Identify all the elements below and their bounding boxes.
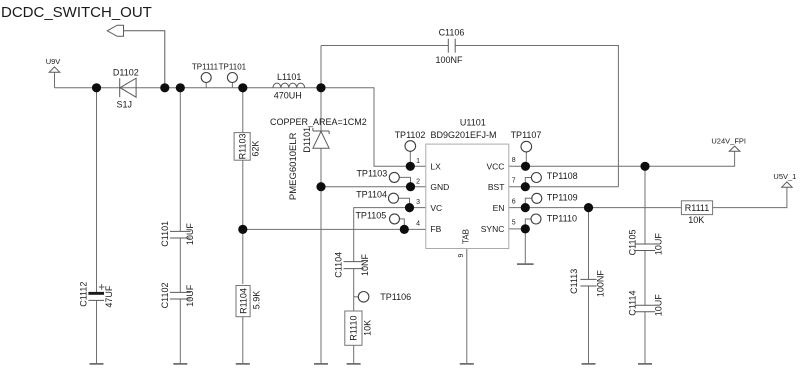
svg-text:C1106: C1106 (439, 28, 465, 38)
svg-text:9: 9 (458, 253, 465, 257)
svg-text:R1103: R1103 (238, 133, 248, 159)
svg-text:D1102: D1102 (113, 67, 139, 77)
svg-text:TP1111: TP1111 (192, 63, 219, 72)
svg-text:C1112: C1112 (78, 282, 88, 307)
svg-text:100NF: 100NF (596, 270, 606, 298)
svg-text:10UF: 10UF (185, 284, 195, 307)
svg-text:U5V_1: U5V_1 (773, 172, 796, 181)
svg-text:LX: LX (430, 161, 441, 171)
svg-text:EN: EN (493, 203, 505, 213)
svg-text:COPPER_AREA=1CM2: COPPER_AREA=1CM2 (270, 117, 367, 127)
svg-text:TP1102: TP1102 (395, 130, 426, 140)
svg-text:TP1108: TP1108 (547, 171, 578, 181)
svg-text:C1101: C1101 (160, 221, 170, 247)
svg-text:D1101: D1101 (302, 127, 312, 153)
svg-text:5: 5 (512, 220, 516, 227)
svg-text:10UF: 10UF (654, 233, 664, 256)
svg-text:R1110: R1110 (349, 316, 359, 341)
svg-text:TP1106: TP1106 (380, 292, 411, 302)
svg-text:7: 7 (512, 178, 516, 185)
svg-text:470UH: 470UH (274, 90, 302, 100)
svg-text:BST: BST (488, 182, 505, 192)
svg-text:C1113: C1113 (569, 269, 579, 294)
svg-text:4: 4 (416, 220, 420, 227)
svg-text:L1101: L1101 (277, 72, 301, 82)
svg-text:3: 3 (416, 199, 420, 206)
svg-text:10K: 10K (362, 320, 372, 336)
svg-text:62K: 62K (251, 141, 261, 157)
svg-text:U9V: U9V (46, 57, 61, 66)
svg-text:10K: 10K (688, 215, 704, 225)
svg-text:U1101: U1101 (460, 118, 486, 128)
svg-text:C1102: C1102 (160, 282, 170, 308)
svg-text:U24V_FPI: U24V_FPI (711, 136, 746, 145)
svg-text:TAB: TAB (461, 229, 470, 244)
svg-text:TP1105: TP1105 (355, 210, 386, 220)
svg-text:S1J: S1J (117, 99, 133, 109)
svg-text:TP1104: TP1104 (356, 190, 387, 200)
svg-text:TP1110: TP1110 (547, 213, 577, 223)
svg-text:100NF: 100NF (435, 55, 463, 65)
svg-text:TP1101: TP1101 (219, 63, 247, 72)
svg-text:PMEG6010ELR: PMEG6010ELR (288, 132, 299, 200)
svg-text:DCDC_SWITCH_OUT: DCDC_SWITCH_OUT (1, 4, 152, 21)
svg-text:5.9K: 5.9K (251, 291, 261, 310)
svg-text:VC: VC (430, 203, 442, 213)
svg-text:C1104: C1104 (333, 252, 343, 278)
svg-text:10UF: 10UF (185, 223, 195, 246)
svg-text:SYNC: SYNC (481, 224, 505, 234)
svg-text:BD9G201EFJ-M: BD9G201EFJ-M (430, 130, 496, 140)
svg-text:C1105: C1105 (628, 229, 638, 255)
svg-text:VCC: VCC (486, 161, 504, 171)
svg-text:47UF: 47UF (104, 285, 114, 308)
svg-text:2: 2 (416, 178, 420, 185)
svg-text:6: 6 (512, 198, 516, 205)
svg-text:TP1107: TP1107 (511, 130, 542, 140)
svg-text:10NF: 10NF (360, 253, 370, 276)
svg-text:R1104: R1104 (238, 288, 248, 314)
svg-text:8: 8 (512, 157, 516, 164)
svg-text:GND: GND (430, 182, 449, 192)
svg-text:TP1109: TP1109 (547, 192, 578, 202)
svg-text:1: 1 (416, 158, 420, 165)
svg-text:C1114: C1114 (628, 291, 638, 316)
svg-text:10UF: 10UF (654, 294, 664, 317)
svg-text:TP1103: TP1103 (356, 169, 387, 179)
svg-text:FB: FB (430, 224, 441, 234)
svg-text:R1111: R1111 (685, 203, 710, 213)
